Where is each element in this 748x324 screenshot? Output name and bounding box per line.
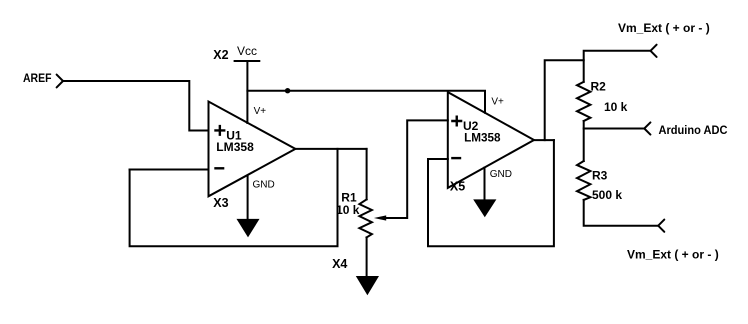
svg-text:10 k: 10 k — [604, 100, 628, 114]
wire R1 wiper to U2 + input — [385, 120, 448, 218]
svg-text:X4: X4 — [332, 257, 347, 271]
op-amp U2 LM358 body — [448, 92, 534, 188]
ground symbol below U1 — [237, 219, 260, 238]
wire Vcc stem to U1 V+ pin — [246, 61, 248, 123]
wire U2 output up to divider — [545, 60, 584, 140]
svg-text:Vm_Ext ( + or - ): Vm_Ext ( + or - ) — [618, 21, 710, 35]
svg-text:Arduino ADC: Arduino ADC — [659, 123, 728, 137]
wire R1 bottom terminal X4 — [366, 237, 368, 276]
wire R2 to R3 — [583, 121, 585, 161]
wire AREF to U1 + input — [63, 81, 209, 131]
wire U2 output — [534, 139, 554, 141]
wire U2 GND pin stem — [484, 168, 486, 200]
wire U2 - input — [428, 158, 448, 160]
ground symbol below U2 — [473, 199, 496, 217]
connector J4 Vm_Ext bottom — [658, 220, 664, 232]
potentiometer R1 zigzag — [359, 199, 372, 237]
power symbol Vcc bar X2 — [235, 60, 260, 62]
svg-text:X2: X2 — [213, 48, 228, 62]
op-amp U1 LM358 body — [209, 102, 296, 197]
connector J3 Arduino ADC — [644, 122, 650, 134]
svg-text:Vm_Ext ( + or - ): Vm_Ext ( + or - ) — [627, 248, 719, 262]
connector J1 AREF pin — [57, 75, 63, 88]
wire R1 top terminal — [366, 149, 368, 200]
junction dot Vcc rail — [285, 88, 290, 93]
svg-text:10 k: 10 k — [336, 203, 360, 217]
wire U1 - input — [130, 169, 209, 171]
wire U2 feedback loop — [428, 140, 554, 246]
plus sign U2 non-inverting input — [451, 116, 462, 127]
svg-text:AREF: AREF — [23, 71, 52, 85]
resistor R3 zigzag — [577, 161, 590, 200]
minus sign U1 inverting input — [214, 167, 224, 169]
svg-text:GND: GND — [253, 179, 275, 190]
svg-text:500 k: 500 k — [592, 188, 622, 202]
plus sign U1 non-inverting input — [214, 125, 225, 136]
svg-text:R3: R3 — [592, 169, 608, 183]
wire divider top to Vm_Ext connector — [584, 51, 651, 82]
wire U1 output to R1 — [295, 148, 366, 150]
svg-text:LM358: LM358 — [216, 140, 254, 154]
wire U1 feedback loop — [130, 149, 338, 246]
svg-text:GND: GND — [490, 169, 512, 180]
svg-text:X5: X5 — [450, 180, 465, 194]
wire U1 GND pin stem — [247, 176, 249, 219]
connector J2 Vm_Ext top — [651, 45, 657, 57]
svg-text:V+: V+ — [491, 97, 504, 108]
svg-text:R2: R2 — [591, 80, 607, 94]
svg-text:V+: V+ — [254, 106, 267, 117]
svg-text:LM358: LM358 — [464, 130, 501, 144]
arrowhead R1 wiper — [374, 215, 386, 220]
svg-text:X3: X3 — [213, 196, 228, 210]
resistor R2 zigzag — [577, 82, 590, 121]
svg-text:Vcc: Vcc — [237, 44, 257, 58]
wire R3 bottom to Vm_Ext connector — [584, 200, 659, 226]
ground symbol X4 below R1 — [356, 276, 379, 295]
wire divider tap to Arduino ADC connector — [584, 128, 645, 130]
wire Vcc rail to U2 V+ pin — [247, 91, 485, 113]
minus sign U2 inverting input — [451, 157, 461, 159]
